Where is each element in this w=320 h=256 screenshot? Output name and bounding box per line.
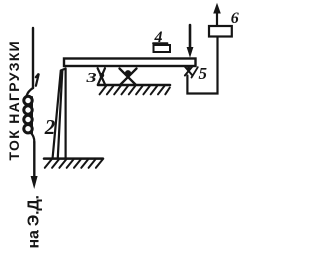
- svg-text:6: 6: [231, 10, 239, 27]
- svg-text:5: 5: [199, 64, 208, 83]
- svg-text:на Э.Д.: на Э.Д.: [26, 195, 43, 248]
- svg-text:ТОК НАГРУЗКИ: ТОК НАГРУЗКИ: [6, 40, 22, 161]
- svg-text:2: 2: [44, 115, 56, 139]
- svg-text:3: 3: [85, 70, 97, 85]
- svg-text:4: 4: [154, 29, 163, 46]
